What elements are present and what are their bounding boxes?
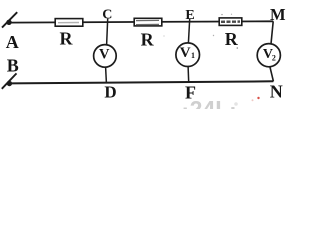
svg-text:V: V (180, 45, 191, 61)
svg-text:2: 2 (272, 53, 276, 62)
svg-text:1: 1 (191, 51, 195, 60)
svg-text:R: R (60, 28, 74, 48)
svg-text:R: R (225, 29, 239, 49)
svg-text:B: B (7, 56, 19, 76)
svg-text:C: C (102, 7, 112, 22)
svg-text:D: D (104, 82, 116, 101)
svg-text:M: M (270, 5, 286, 24)
svg-text:N: N (270, 82, 283, 102)
svg-text:R: R (141, 29, 155, 49)
svg-text:A: A (6, 32, 19, 52)
svg-text:E: E (185, 8, 194, 23)
svg-text:V: V (99, 47, 110, 63)
svg-text:·24L⋅: ·24L⋅ (182, 96, 237, 109)
